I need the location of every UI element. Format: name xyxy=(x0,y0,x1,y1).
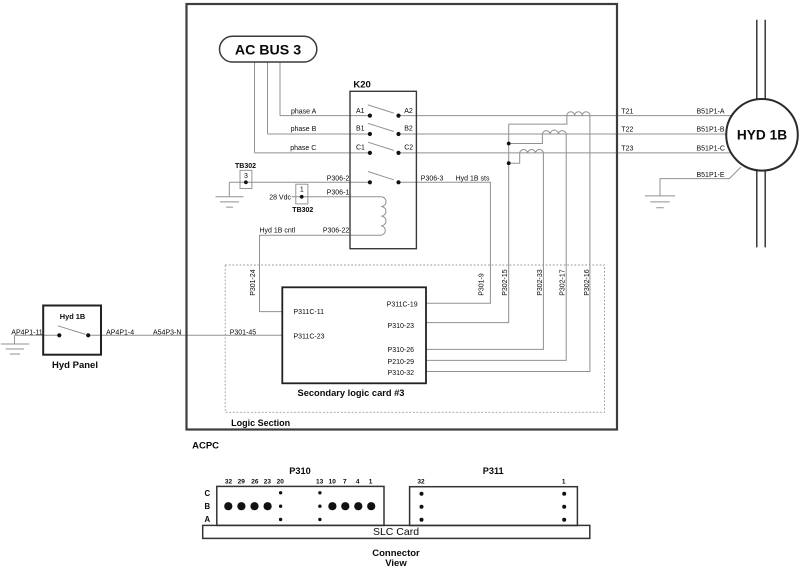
svg-text:10: 10 xyxy=(329,478,337,485)
svg-text:C2: C2 xyxy=(404,145,413,152)
svg-text:P302-33: P302-33 xyxy=(537,269,544,296)
svg-text:P302-17: P302-17 xyxy=(560,269,567,296)
svg-text:P310-23: P310-23 xyxy=(388,323,415,330)
svg-text:28 Vdc: 28 Vdc xyxy=(269,194,291,201)
svg-text:P311C-11: P311C-11 xyxy=(294,309,325,316)
svg-text:P306-3: P306-3 xyxy=(421,176,444,183)
svg-text:P306-1: P306-1 xyxy=(327,189,350,196)
svg-text:P311: P311 xyxy=(483,466,504,476)
svg-text:K20: K20 xyxy=(353,80,370,91)
svg-text:13: 13 xyxy=(316,478,324,485)
svg-text:Secondary logic card #3: Secondary logic card #3 xyxy=(298,388,405,398)
svg-text:AC BUS 3: AC BUS 3 xyxy=(235,42,301,58)
svg-text:P302-16: P302-16 xyxy=(584,269,591,296)
svg-text:B51P1-E: B51P1-E xyxy=(697,172,725,179)
svg-text:T22: T22 xyxy=(621,127,633,134)
svg-text:B51P1-B: B51P1-B xyxy=(697,127,725,134)
svg-text:26: 26 xyxy=(251,478,259,485)
svg-text:P302-15: P302-15 xyxy=(502,269,509,296)
svg-text:P311C-23: P311C-23 xyxy=(294,333,325,340)
svg-text:29: 29 xyxy=(238,478,246,485)
svg-text:phase A: phase A xyxy=(291,109,317,116)
svg-text:P310: P310 xyxy=(289,466,310,476)
svg-text:P306-2: P306-2 xyxy=(327,176,350,183)
svg-text:TB302: TB302 xyxy=(292,207,313,214)
svg-text:T21: T21 xyxy=(621,108,633,115)
svg-text:32: 32 xyxy=(417,478,425,485)
svg-text:23: 23 xyxy=(264,478,272,485)
svg-text:AP4P1-4: AP4P1-4 xyxy=(106,329,134,336)
svg-text:1: 1 xyxy=(300,187,304,194)
svg-text:20: 20 xyxy=(277,478,285,485)
svg-text:View: View xyxy=(385,558,407,569)
svg-text:B51P1-C: B51P1-C xyxy=(697,145,725,152)
svg-text:C: C xyxy=(204,489,210,498)
svg-text:phase B: phase B xyxy=(291,126,317,133)
svg-text:B: B xyxy=(204,502,210,511)
svg-text:P301-45: P301-45 xyxy=(230,329,257,336)
svg-text:Hyd 1B: Hyd 1B xyxy=(60,312,85,321)
svg-text:A: A xyxy=(204,515,210,524)
svg-text:AP4P1-11: AP4P1-11 xyxy=(11,329,42,336)
svg-text:7: 7 xyxy=(343,478,347,485)
svg-text:Hyd 1B cntl: Hyd 1B cntl xyxy=(260,228,296,235)
svg-text:A1: A1 xyxy=(356,108,365,115)
svg-text:SLC Card: SLC Card xyxy=(373,526,419,538)
svg-text:4: 4 xyxy=(356,478,360,485)
svg-text:A54P3-N: A54P3-N xyxy=(153,329,181,336)
svg-text:Logic Section: Logic Section xyxy=(231,418,290,428)
svg-text:P301-9: P301-9 xyxy=(479,273,486,296)
svg-text:P301-24: P301-24 xyxy=(250,269,257,296)
svg-text:ACPC: ACPC xyxy=(192,440,219,451)
svg-text:3: 3 xyxy=(244,173,248,180)
svg-text:32: 32 xyxy=(225,478,233,485)
svg-text:HYD 1B: HYD 1B xyxy=(737,128,787,143)
svg-text:B1: B1 xyxy=(356,126,365,133)
svg-text:C1: C1 xyxy=(356,145,365,152)
svg-text:P311C-19: P311C-19 xyxy=(387,302,418,309)
svg-text:P310-26: P310-26 xyxy=(388,347,415,354)
svg-text:B2: B2 xyxy=(404,126,413,133)
svg-text:P210-29: P210-29 xyxy=(388,359,415,366)
svg-text:1: 1 xyxy=(369,478,373,485)
svg-text:phase C: phase C xyxy=(290,145,316,152)
svg-text:P310-32: P310-32 xyxy=(388,370,415,377)
svg-text:B51P1-A: B51P1-A xyxy=(697,108,725,115)
svg-text:Hyd Panel: Hyd Panel xyxy=(52,360,98,371)
svg-text:A2: A2 xyxy=(404,108,413,115)
svg-text:T23: T23 xyxy=(621,145,633,152)
svg-text:TB302: TB302 xyxy=(235,163,256,170)
svg-text:1: 1 xyxy=(562,478,566,485)
svg-text:Hyd 1B sts: Hyd 1B sts xyxy=(456,176,490,183)
svg-text:P306-22: P306-22 xyxy=(323,228,350,235)
